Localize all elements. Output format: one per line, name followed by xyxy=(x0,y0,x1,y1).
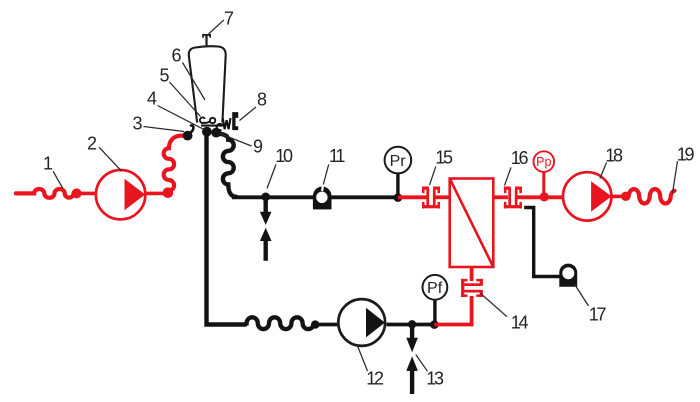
drain arrows 10 (down arrow and up arrow) xyxy=(260,197,272,261)
label 15 xyxy=(430,148,453,186)
svg-text:Pf: Pf xyxy=(427,280,443,297)
svg-text:Pp: Pp xyxy=(536,155,551,169)
svg-text:7: 7 xyxy=(224,9,234,29)
svg-text:10: 10 xyxy=(275,146,293,166)
wire: main vertical pipe from chamber down and bottom corner xyxy=(207,132,246,325)
outlet hook at port 9 xyxy=(217,124,223,130)
svg-text:15: 15 xyxy=(435,148,453,168)
node: dot before pump 12 xyxy=(311,320,319,328)
pinch clamp 17 xyxy=(559,264,577,287)
hose 1 (red flexible inlet hose) xyxy=(16,189,74,198)
label 10 xyxy=(267,146,293,189)
pressure gauge Pr xyxy=(385,147,412,197)
wire: black shunt line from coupling 16 down to clamp 17 xyxy=(524,208,560,277)
label 17 xyxy=(575,284,607,325)
node: junction dot at Pf xyxy=(430,320,439,329)
wire: line to pump 12 xyxy=(315,323,338,327)
pump 18 (red outlet pump) xyxy=(563,172,612,220)
node: junction dot 10 xyxy=(261,193,270,202)
label 3 xyxy=(132,114,184,134)
svg-text:1: 1 xyxy=(43,154,53,174)
label 4 xyxy=(147,89,204,130)
label 18 xyxy=(600,146,623,179)
wire: red line coupling 16 to pump 18 xyxy=(516,195,564,199)
node: junction dot after pump 2 xyxy=(163,187,174,198)
wire: red return line from Pf junction up to dialyzer bottom xyxy=(434,296,471,325)
svg-text:17: 17 xyxy=(589,305,607,325)
svg-text:11: 11 xyxy=(329,146,345,166)
svg-text:16: 16 xyxy=(511,148,529,168)
pinch valve 11 (black valve on main line) xyxy=(313,186,332,210)
wire: red line Pr junction to coupling 15 xyxy=(398,195,428,199)
pressure gauge Pf xyxy=(423,275,448,325)
label 14 xyxy=(481,293,529,332)
node: junction dot before pump 2 xyxy=(72,188,82,198)
wire: red line dot to pump 2 xyxy=(77,192,97,196)
feed arrows 13 (down arrow and up arrow) xyxy=(406,325,418,395)
pump 12 (black dialysate pump) xyxy=(338,299,385,346)
wire: red line pump 2 to dot xyxy=(145,192,168,196)
label 6 xyxy=(171,46,205,101)
node: red dot before hose 19 xyxy=(621,192,630,201)
coupling 14 (red quick connector, vertical) xyxy=(461,279,483,297)
node: junction dot 13 xyxy=(408,320,416,328)
svg-text:Pr: Pr xyxy=(390,153,407,170)
wire: main black line to Pr junction xyxy=(232,195,399,199)
label 2 xyxy=(87,134,122,172)
node: port dot 4 (center bottom of chamber) xyxy=(202,127,212,137)
wire: red line pump 18 to dot xyxy=(611,195,626,199)
wire: red line coupling 15 to dialyzer xyxy=(434,195,450,199)
label 9 xyxy=(220,134,263,157)
svg-text:19: 19 xyxy=(677,145,695,165)
hose 19 (red flexible outlet hose) xyxy=(629,189,675,203)
node: junction dot at Pr xyxy=(394,193,403,202)
svg-text:18: 18 xyxy=(605,146,623,166)
label 7 xyxy=(209,9,235,35)
svg-text:6: 6 xyxy=(171,46,181,66)
svg-text:5: 5 xyxy=(159,66,169,86)
label 19 xyxy=(673,145,695,194)
coupling 16 (red quick connector) xyxy=(504,187,522,209)
label 11 xyxy=(323,146,345,185)
node: port dot 3 (black, chamber left port) xyxy=(183,131,193,141)
node: red junction dot at Pp xyxy=(540,192,549,201)
drip chamber 6 (tapered vessel) xyxy=(189,46,226,125)
svg-text:8: 8 xyxy=(257,90,267,110)
label 8 xyxy=(240,90,268,121)
vent stem 7 on top of chamber xyxy=(203,35,210,47)
svg-text:9: 9 xyxy=(253,137,263,157)
label 13 xyxy=(416,355,444,389)
hose 9 (black flexible hose from chamber port to main line) xyxy=(219,134,237,197)
label 5 xyxy=(159,66,200,117)
spring valve 8 (W spring + bracket at chamber right) xyxy=(223,112,239,130)
label 16 xyxy=(505,148,529,186)
pressure gauge Pp (red) xyxy=(534,151,555,197)
svg-text:14: 14 xyxy=(511,313,529,333)
inlet hook 3/4 (tube into chamber bottom) xyxy=(189,125,194,133)
pump 2 (red blood pump, circle with triangle) xyxy=(96,170,145,219)
wire: red line coupling 14 to dialyzer bottom xyxy=(470,267,474,281)
wire: black line pump 12 to Pf junction xyxy=(387,323,437,327)
svg-text:4: 4 xyxy=(147,89,157,109)
level float 5 (sensor symbol in chamber) xyxy=(200,117,215,123)
svg-text:12: 12 xyxy=(366,369,384,389)
dialyzer (red rectangle with diagonal) xyxy=(450,179,494,268)
wire: red line dialyzer to coupling 16 xyxy=(493,195,508,199)
label 1 xyxy=(43,154,63,189)
hose: black flexible hose on bottom dialysate line xyxy=(246,317,315,329)
node: port dot 9 (chamber right port) xyxy=(211,128,221,138)
svg-text:13: 13 xyxy=(426,369,444,389)
label 12 xyxy=(357,344,384,388)
svg-text:3: 3 xyxy=(132,114,142,134)
hose: red flexible hose from pump 2 up to chamber port 3 xyxy=(164,136,185,191)
coupling 15 (red quick connector) xyxy=(422,187,440,209)
svg-text:2: 2 xyxy=(87,134,97,154)
